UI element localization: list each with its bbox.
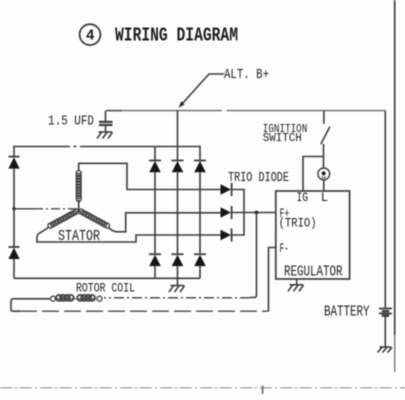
svg-text:SWITCH: SWITCH [263,131,302,145]
wire top B+ line [107,110,123,112]
ground (regulator) [288,279,304,291]
svg-text:F-: F- [280,242,290,256]
stator winding lower-left (phase 3) coil [48,209,79,228]
wire branch IG [303,157,324,192]
diode D8 (bridge bottom col3) [194,254,206,278]
wire rotor left loop [11,299,51,311]
diode D9 (trio top) [221,183,232,196]
wire bottom rail of bridge [14,277,200,279]
wire phase 1 to bridge [79,163,221,189]
svg-text:BATTERY: BATTERY [324,303,370,320]
page border right [394,0,396,335]
wire battery feed right [384,111,386,308]
wire B+ rail top of bridge [14,146,200,148]
ground (bridge) [169,278,185,292]
wire phase 2 to bridge [109,213,221,232]
diode D7 (bridge bottom col2) [172,254,184,278]
wire neutral line to stator center [14,208,34,210]
wire trio rail [232,190,244,236]
wire B+ riser [177,111,179,161]
tick mark bottom [262,386,264,394]
wire trio to F+ [232,212,276,214]
diode D5 (bridge top col3) [194,161,206,255]
svg-text:ALT. B+: ALT. B+ [224,68,269,83]
wire F- riser [269,248,277,312]
diode D1 (left upper) [8,157,19,209]
node F+ junction [255,211,259,215]
regulator box U1 [276,191,350,279]
wire rotor bottom line [20,310,269,312]
ground (capacitor) [97,132,113,139]
svg-text:4: 4 [86,29,95,45]
svg-text:L: L [321,191,329,205]
svg-text:STATOR: STATOR [58,228,100,245]
page rule bottom [0,387,405,389]
stator winding top (phase 1) coil [76,171,81,202]
leader arrow to node B+ [179,74,224,108]
wire stator center stem [76,200,82,212]
diode D11 (trio bottom) [221,228,232,241]
ground (battery) [378,347,393,353]
charge relay lamp [318,157,330,192]
capacitor C1 [99,111,113,132]
label IGNITION SWITCH [263,122,308,145]
wire rotor top line (dash-dot) [104,297,250,299]
svg-text:(TRIO): (TRIO) [279,217,317,231]
stator winding lower-right (phase 2) coil [79,209,110,228]
svg-text:TRIO DIODE: TRIO DIODE [228,170,289,186]
diode D2 (left lower) [8,209,19,278]
diode D3 (bridge top col1) [149,161,161,255]
diode D4 (bridge top col2) [172,161,184,255]
svg-text:ROTOR COIL: ROTOR COIL [76,281,135,296]
node neutral junction [12,207,15,210]
svg-text:IG: IG [297,191,309,205]
wire switch to branch [323,144,325,157]
diode D6 (bridge bottom col1) [149,254,161,278]
battery BT1 [379,309,392,348]
diode D10 (trio middle) [221,206,232,219]
wire phase 3 to bridge [37,228,221,243]
title circled 4 [80,24,101,45]
wire F+ drop to rotor [250,213,257,298]
wire rail corners [14,146,200,161]
rotor coil terminal right [97,296,102,301]
ignition switch S1 [321,111,330,145]
rotor coil terminal left [51,296,56,301]
svg-text:WIRING DIAGRAM: WIRING DIAGRAM [115,25,238,47]
svg-text:REGULATOR: REGULATOR [284,264,343,280]
svg-text:1.5 UFD: 1.5 UFD [48,114,94,130]
rotor coil L1 [56,295,97,301]
